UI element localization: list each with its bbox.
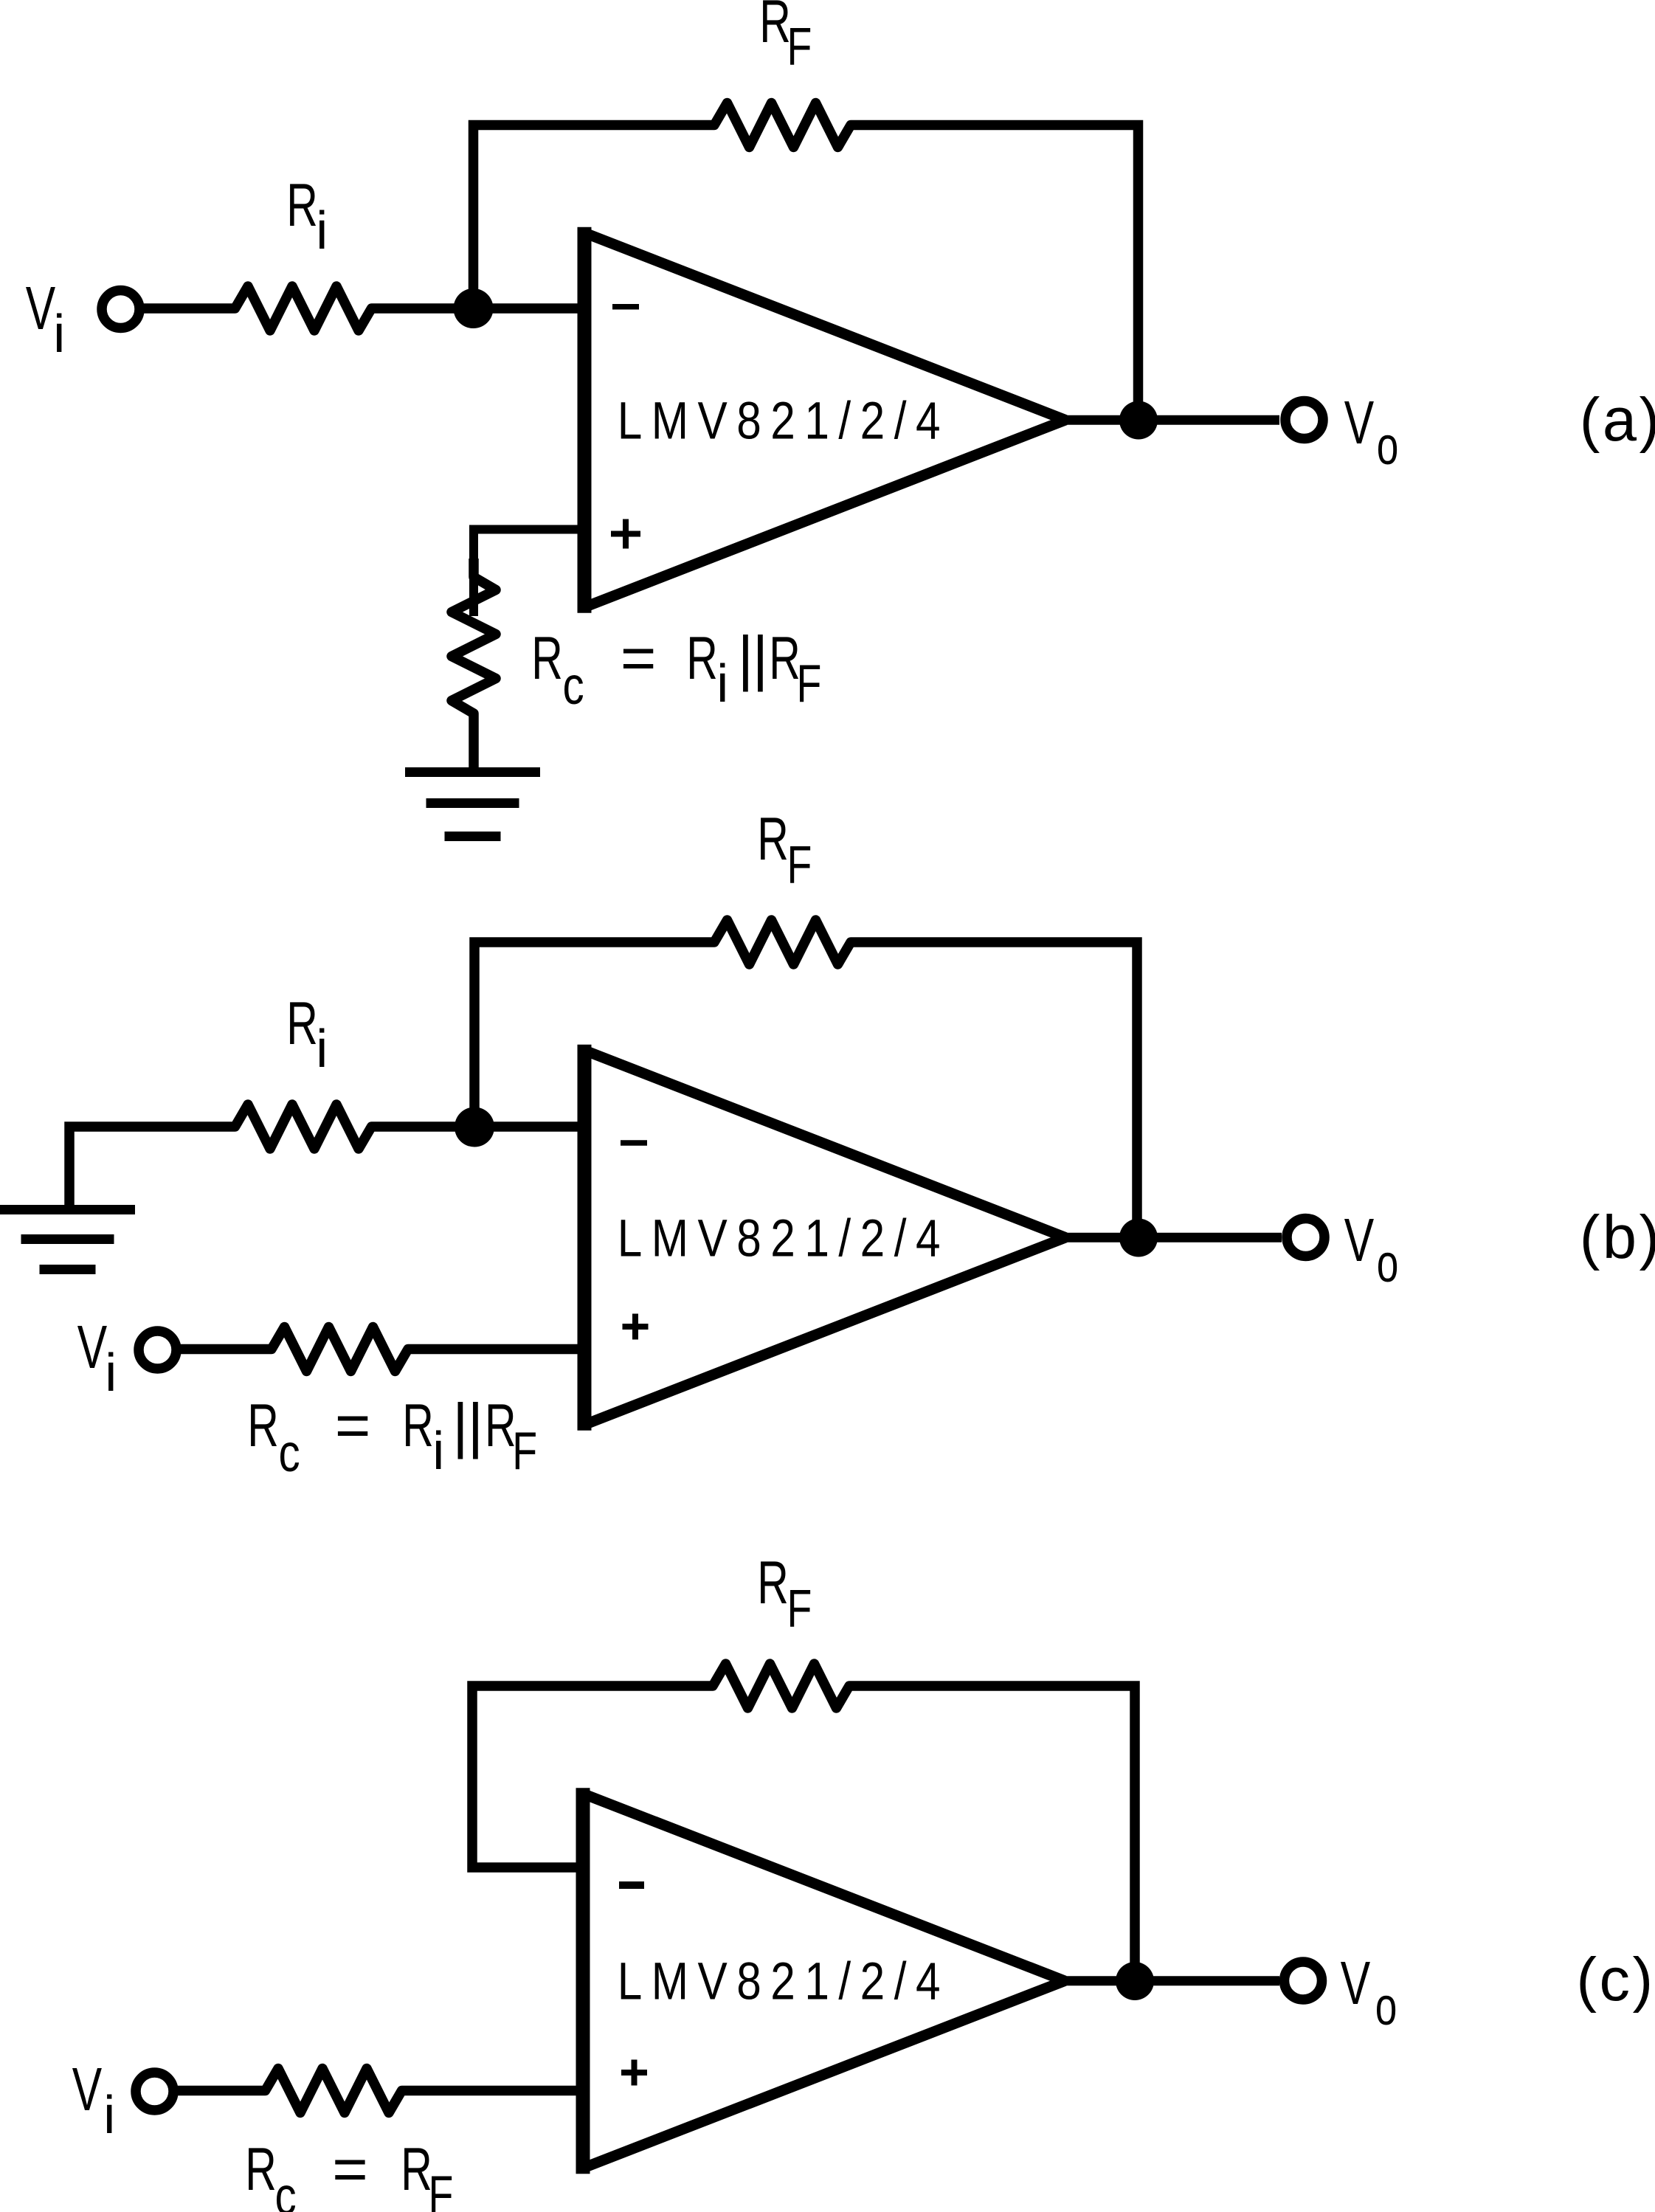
svg-text:i: i	[316, 1020, 328, 1079]
node: inverting input junction (circuit a)	[454, 288, 494, 328]
svg-text:R: R	[686, 624, 718, 692]
svg-text:c: c	[275, 2166, 297, 2212]
op-amp inverting input symbol (circuit c)	[619, 1881, 644, 1889]
svg-text:F: F	[429, 2165, 454, 2212]
svg-text:i: i	[716, 654, 728, 713]
wire+resistor Rc: Vi to non-inverting input (circuit b)	[176, 1344, 253, 1355]
ground (circuit b)	[0, 1205, 135, 1214]
svg-text:o: o	[1377, 1234, 1399, 1293]
svg-text:V: V	[26, 274, 56, 343]
wire: non-inverting input down to ground via Rc (circuit a)	[474, 530, 578, 617]
resistor Rc (circuit a)	[452, 559, 496, 732]
svg-text:R: R	[757, 1549, 789, 1617]
svg-text:R: R	[759, 0, 791, 55]
ground (circuit a)	[405, 767, 540, 777]
svg-text:|: |	[468, 1391, 484, 1459]
svg-text:i: i	[103, 2086, 115, 2145]
op-amp U1 LMV821/2/4 (circuit a)	[578, 227, 592, 613]
svg-text:R: R	[286, 171, 318, 239]
svg-text:F: F	[512, 1421, 537, 1481]
svg-text:F: F	[787, 835, 812, 895]
op-amp non-inverting input symbol (circuit b)	[623, 1324, 649, 1330]
wire+resistor Ri: Vi terminal to inverting input (circuit a)	[140, 303, 217, 314]
node: output junction (circuit c)	[1116, 1962, 1154, 2000]
svg-text:F: F	[797, 654, 822, 713]
svg-text:R: R	[485, 1392, 516, 1459]
node: output junction (circuit a)	[1119, 401, 1158, 440]
feedback loop with resistor RF (circuit b)	[474, 942, 696, 1127]
op-amp non-inverting input symbol (circuit c)	[621, 2070, 647, 2076]
svg-text:(b): (b)	[1580, 1203, 1655, 1271]
op-amp non-inverting input symbol (circuit a)	[611, 531, 640, 537]
svg-text:LMV821/2/4: LMV821/2/4	[618, 1209, 950, 1268]
svg-text:(a): (a)	[1580, 385, 1655, 454]
wire+resistor Ri: ground to inverting input (circuit b)	[69, 1127, 217, 1210]
svg-text:c: c	[279, 1423, 300, 1482]
wire: output (circuit b)	[1065, 1233, 1282, 1242]
svg-text:LMV821/2/4: LMV821/2/4	[618, 1952, 950, 2011]
svg-text:R: R	[245, 2135, 277, 2203]
svg-text:R: R	[401, 2135, 432, 2203]
svg-text:R: R	[402, 1392, 434, 1459]
op-amp inverting input symbol (circuit b)	[621, 1140, 647, 1146]
svg-text:=: =	[335, 1391, 370, 1459]
svg-text:i: i	[53, 305, 65, 364]
node: inverting input junction (circuit b)	[455, 1107, 494, 1147]
svg-text:V: V	[77, 1313, 108, 1382]
terminal Vi (circuit c)	[136, 2073, 173, 2110]
svg-text:F: F	[787, 1579, 812, 1639]
feedback loop with resistor RF (circuit a)	[474, 125, 697, 309]
svg-text:R: R	[286, 989, 318, 1057]
wire+resistor Rc: Vi to non-inverting input (circuit c)	[173, 2086, 247, 2096]
op-amp inverting input symbol (circuit a)	[612, 304, 639, 310]
svg-text:o: o	[1375, 1977, 1397, 2036]
svg-text:|: |	[753, 623, 769, 692]
svg-text:V: V	[1344, 1206, 1375, 1275]
svg-text:LMV821/2/4: LMV821/2/4	[618, 391, 950, 450]
svg-text:R: R	[531, 624, 563, 692]
svg-text:c: c	[563, 656, 584, 715]
feedback loop with resistor RF (circuit c)	[472, 1686, 694, 1867]
svg-text:|: |	[452, 1391, 469, 1459]
terminal Vi (circuit b)	[139, 1331, 176, 1369]
svg-text:V: V	[1344, 389, 1375, 457]
wire: output (circuit a)	[1065, 415, 1279, 425]
terminal Vo (circuit a)	[1285, 401, 1323, 439]
svg-text:o: o	[1377, 417, 1399, 476]
svg-text:R: R	[247, 1392, 279, 1459]
op-amp U2 LMV821/2/4 (circuit b)	[578, 1045, 592, 1431]
terminal Vi (circuit a)	[102, 291, 139, 328]
svg-text:F: F	[787, 17, 812, 77]
op-amp U3 LMV821/2/4 (circuit c)	[576, 1788, 590, 2174]
svg-text:=: =	[332, 2135, 367, 2203]
svg-text:=: =	[621, 623, 656, 692]
svg-text:i: i	[105, 1344, 117, 1403]
svg-text:i: i	[316, 201, 328, 260]
svg-text:(c): (c)	[1576, 1945, 1655, 2014]
node: output junction (circuit b)	[1119, 1219, 1158, 1257]
svg-text:i: i	[432, 1422, 444, 1481]
terminal Vo (circuit b)	[1287, 1219, 1324, 1257]
wire: output (circuit c)	[1065, 1976, 1279, 1985]
svg-text:V: V	[1341, 1949, 1371, 2018]
svg-text:R: R	[757, 805, 789, 873]
terminal Vo (circuit c)	[1285, 1962, 1322, 2000]
svg-text:V: V	[72, 2056, 103, 2124]
svg-text:R: R	[769, 624, 801, 692]
svg-text:|: |	[738, 623, 754, 692]
